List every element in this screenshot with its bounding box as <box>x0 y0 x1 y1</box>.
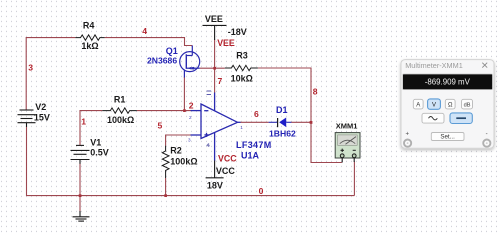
VCC power symbol <box>206 160 224 178</box>
svg-text:LF347M: LF347M <box>236 140 272 150</box>
wire net4 R4 to Q1 gate <box>105 38 193 46</box>
wire net6 op-amp out to diode <box>240 121 269 123</box>
battery V2 <box>18 110 36 127</box>
VEE power symbol <box>203 25 227 40</box>
multimeter XMM1 icon <box>335 133 360 163</box>
junction net2 <box>183 109 186 112</box>
svg-text:VCC: VCC <box>218 154 237 164</box>
svg-text:Multimeter-XMM1: Multimeter-XMM1 <box>405 61 463 70</box>
junction net7 / VEE <box>213 67 216 70</box>
wire net3/net4 R4 row <box>26 38 354 212</box>
button V selected <box>428 99 441 109</box>
wire net0 ground rail <box>27 127 355 196</box>
svg-text:100kΩ: 100kΩ <box>107 115 134 125</box>
pin number 4 <box>207 143 210 147</box>
svg-text:R4: R4 <box>83 21 95 31</box>
svg-text:3: 3 <box>28 63 33 73</box>
button DC selected <box>450 113 472 124</box>
svg-text:Set...: Set... <box>440 134 455 141</box>
button A <box>413 99 423 109</box>
svg-text:1: 1 <box>81 116 86 126</box>
net labels <box>28 26 318 196</box>
svg-text:1: 1 <box>240 125 243 130</box>
wire net7 Q1 source to R3 <box>200 67 225 69</box>
svg-text:R2: R2 <box>170 145 182 155</box>
wire V1 bottom to ground <box>79 164 81 212</box>
wire VEE vertical <box>214 40 216 94</box>
resistor R2 (vertical) <box>162 146 169 178</box>
svg-text:R1: R1 <box>114 95 126 105</box>
wire net8 R3 to multimeter + <box>258 68 342 163</box>
display <box>403 74 493 90</box>
wire net2 Q1 to R1 row <box>183 77 185 111</box>
svg-text:+: + <box>406 131 410 137</box>
resistor R3 <box>225 65 258 70</box>
svg-text:D1: D1 <box>276 105 288 115</box>
svg-text:VEE: VEE <box>205 14 223 24</box>
svg-text:-: - <box>486 132 488 138</box>
junction net0 / V1-ground <box>79 194 82 197</box>
wire net2 R1 right to op-amp <box>137 110 191 112</box>
wire R2 bottom to rail <box>165 178 167 196</box>
svg-text:XMM1: XMM1 <box>336 122 358 131</box>
svg-text:R3: R3 <box>236 50 248 60</box>
transistor Q1 <box>180 46 200 78</box>
junction net0 / R2 <box>164 194 167 197</box>
svg-text:VCC: VCC <box>216 166 236 176</box>
close X <box>482 63 487 68</box>
svg-text:A: A <box>416 102 420 108</box>
svg-text:V: V <box>432 102 436 108</box>
svg-text:Q1: Q1 <box>166 46 178 56</box>
svg-text:U1A: U1A <box>241 150 260 160</box>
svg-text:10kΩ: 10kΩ <box>231 74 253 84</box>
battery V1 <box>71 145 90 163</box>
svg-text:-18V: -18V <box>228 27 247 37</box>
svg-text:dB: dB <box>464 102 471 108</box>
button dB <box>462 99 473 109</box>
junction net6/net8 <box>310 121 313 124</box>
svg-text:3: 3 <box>188 137 191 142</box>
svg-text:2N3686: 2N3686 <box>147 56 177 66</box>
svg-text:0: 0 <box>259 186 264 196</box>
set button <box>431 133 464 141</box>
diode D1 <box>269 121 278 123</box>
wire net1 V1 top / R1 left <box>80 111 102 145</box>
pin number 11 <box>207 91 211 95</box>
svg-text:VEE: VEE <box>217 38 235 48</box>
svg-text:8: 8 <box>313 86 318 96</box>
svg-text:1BH62: 1BH62 <box>269 129 296 139</box>
svg-text:Ω: Ω <box>448 102 453 108</box>
resistor R4 <box>75 35 104 40</box>
svg-text:5: 5 <box>158 121 163 131</box>
wire net6 diode to net8 <box>291 121 311 123</box>
button ohm <box>445 99 455 109</box>
multimeter panel <box>401 60 494 149</box>
op-amp U1 <box>191 93 241 161</box>
svg-text:100kΩ: 100kΩ <box>170 156 197 166</box>
wire net5 to op-amp + input <box>166 135 191 146</box>
resistor R1 <box>102 108 137 113</box>
svg-text:2: 2 <box>189 115 192 120</box>
svg-text:0.5V: 0.5V <box>90 147 109 157</box>
svg-text:1kΩ: 1kΩ <box>81 41 98 51</box>
svg-text:2: 2 <box>189 100 194 110</box>
svg-text:4: 4 <box>142 26 147 36</box>
wire multimeter minus to rail <box>353 162 355 196</box>
svg-text:7: 7 <box>218 76 223 86</box>
svg-text:18V: 18V <box>207 180 223 190</box>
svg-text:15V: 15V <box>34 113 50 123</box>
svg-text:V2: V2 <box>35 102 46 112</box>
svg-text:-869.909 mV: -869.909 mV <box>425 78 471 87</box>
svg-text:V1: V1 <box>90 137 101 147</box>
button sine <box>422 113 444 123</box>
svg-text:6: 6 <box>254 109 259 119</box>
ground <box>73 211 90 221</box>
